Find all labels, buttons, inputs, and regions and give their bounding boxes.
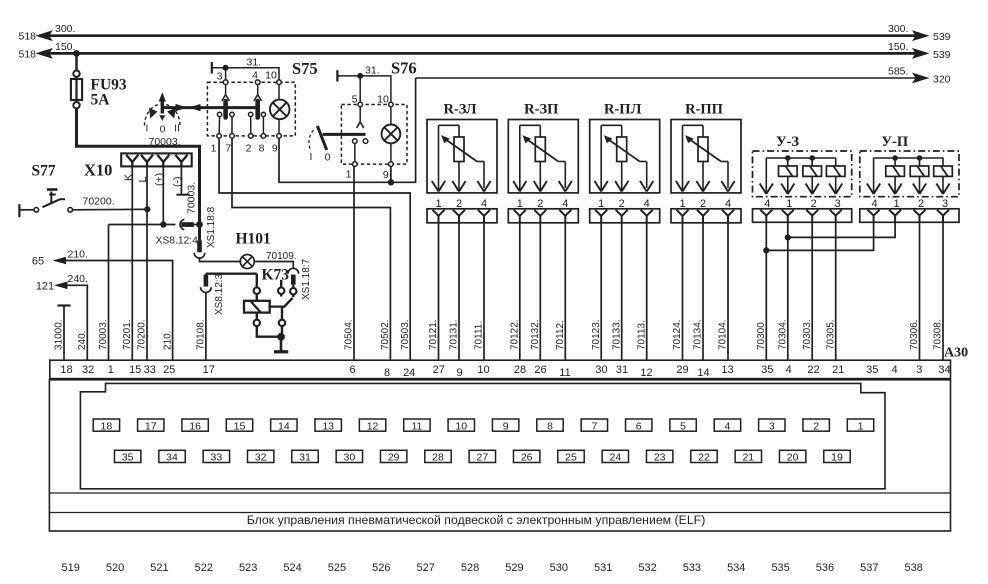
label 31. (S76): [365, 65, 380, 77]
svg-text:70112.: 70112.: [555, 320, 566, 350]
svg-text:518: 518: [19, 31, 37, 43]
label 70200: [83, 195, 115, 207]
svg-text:65: 65: [32, 256, 44, 268]
label У-П: [881, 134, 908, 150]
connector strip (R-ПЛ): [590, 209, 660, 223]
label S76: [391, 59, 417, 78]
svg-text:320: 320: [933, 74, 951, 86]
connector XS8.12:3: [201, 274, 257, 293]
wire 70200 (X10 L to pin 33): [144, 166, 150, 360]
svg-text:20: 20: [787, 452, 799, 464]
label A30: [944, 346, 968, 361]
wire bus 300 (518-539): [35, 30, 929, 41]
svg-text:70121.: 70121.: [428, 319, 439, 350]
svg-text:532: 532: [638, 562, 656, 574]
S75 pins (bottom): [217, 134, 282, 139]
svg-text:529: 529: [505, 562, 523, 574]
S75 contact group 1: [217, 85, 234, 134]
svg-text:3: 3: [916, 364, 922, 376]
wire 70308 (У-П pin3 to pin 34): [933, 222, 944, 360]
svg-text:25: 25: [163, 364, 175, 376]
wire 70303 (У-З pin2 to pin 22): [802, 222, 813, 360]
svg-text:3: 3: [769, 420, 775, 432]
pin labels 4 1 2 3 (У-З): [764, 198, 841, 210]
svg-text:25: 25: [565, 452, 577, 464]
svg-text:21: 21: [832, 364, 844, 376]
svg-text:4: 4: [891, 364, 897, 376]
node 539 (bus 300 right): [888, 23, 951, 43]
svg-text:210.: 210.: [162, 331, 173, 350]
svg-text:31: 31: [299, 452, 311, 464]
svg-text:I: I: [146, 123, 149, 135]
wire 70503 (S75 pin1 to pin 24): [219, 138, 410, 360]
height sensor R-ЗЛ: [427, 120, 497, 193]
label H101: [236, 231, 271, 248]
svg-text:34: 34: [938, 364, 950, 376]
label 70200 (wire): [137, 319, 148, 350]
connector strip (У-П): [860, 209, 959, 223]
wire 70133.: [611, 223, 622, 360]
wire 31 (S76 supply): [337, 70, 391, 104]
pin labels 1 9 (S76 bottom): [346, 169, 389, 181]
node 518 (bus 300 left): [19, 23, 76, 43]
wire 70122.: [510, 223, 521, 360]
svg-text:XS1.18:7: XS1.18:7: [301, 258, 312, 300]
svg-text:30: 30: [595, 364, 607, 376]
svg-text:S76: S76: [391, 59, 417, 78]
label K73: [262, 267, 290, 284]
svg-text:70504.: 70504.: [344, 319, 355, 350]
svg-text:70306.: 70306.: [909, 319, 920, 350]
svg-text:7: 7: [225, 143, 231, 155]
pin labels 1 7 2 8 9 (S75 bottom): [211, 143, 278, 155]
svg-text:70111.: 70111.: [474, 321, 485, 350]
svg-text:30: 30: [344, 452, 356, 464]
svg-text:3: 3: [217, 71, 223, 83]
svg-text:9: 9: [272, 143, 278, 155]
svg-text:12: 12: [640, 367, 652, 379]
svg-text:24: 24: [609, 452, 621, 464]
svg-text:6: 6: [636, 420, 642, 432]
junction S76 pin9: [388, 179, 394, 185]
wire S75 pin9 to bus 585: [279, 78, 416, 182]
svg-text:1: 1: [211, 143, 217, 155]
label R-ПЛ: [604, 102, 642, 118]
label 70504: [344, 319, 355, 350]
wire 70112.: [555, 223, 566, 360]
ELF caption: [247, 513, 706, 527]
svg-text:14: 14: [278, 420, 290, 432]
svg-text:S75: S75: [292, 59, 318, 78]
connector XS1.18:8: [194, 225, 205, 259]
wire S76 pin9 to junction: [390, 166, 392, 182]
svg-text:8: 8: [547, 420, 553, 432]
svg-text:518: 518: [19, 49, 37, 61]
label 121: [36, 273, 88, 293]
svg-text:524: 524: [283, 562, 301, 574]
svg-text:12: 12: [367, 420, 379, 432]
connector XS8.12:4: [180, 219, 194, 229]
switch S76 body: [341, 105, 407, 165]
svg-text:XS8.12:3: XS8.12:3: [214, 273, 225, 315]
svg-text:70113.: 70113.: [636, 320, 647, 350]
svg-text:530: 530: [550, 562, 568, 574]
svg-text:10: 10: [455, 420, 467, 432]
svg-text:210.: 210.: [68, 248, 88, 260]
svg-text:У-П: У-П: [881, 134, 908, 150]
svg-text:70003.: 70003.: [149, 136, 181, 148]
connector strip (R-ЗП): [508, 209, 578, 223]
svg-text:70201.: 70201.: [122, 319, 133, 350]
connector strip (У-З): [753, 209, 852, 223]
wire bus 585 (to 320): [416, 73, 930, 84]
svg-text:16: 16: [189, 420, 201, 432]
svg-text:R-ЗП: R-ЗП: [524, 102, 558, 118]
label 70003 (top): [149, 136, 181, 148]
svg-text:29: 29: [388, 452, 400, 464]
wire 70003 (fuse output, thick): [77, 108, 200, 223]
wire 70504 (S76 pin1 to pin 6): [353, 166, 355, 360]
svg-text:70133.: 70133.: [611, 319, 622, 350]
wire bus 150 (518-539): [35, 48, 929, 59]
wire У-П pin4 join: [766, 222, 873, 250]
wire 70132.: [530, 223, 541, 360]
svg-text:R-ПЛ: R-ПЛ: [604, 102, 642, 118]
wire 70121.: [428, 223, 439, 360]
svg-text:17: 17: [145, 420, 157, 432]
pin labels 4 1 2 3 (У-П): [872, 198, 949, 210]
label R-ЗЛ: [443, 102, 476, 118]
svg-text:0: 0: [160, 124, 166, 136]
svg-text:527: 527: [416, 562, 434, 574]
label R-ПП: [685, 102, 723, 118]
ELF control unit outer box: [49, 380, 950, 531]
svg-text:525: 525: [328, 562, 346, 574]
svg-text:70300: 70300: [756, 322, 767, 350]
svg-text:522: 522: [195, 562, 213, 574]
wire 70131.: [449, 223, 460, 360]
svg-text:70305.: 70305.: [825, 319, 836, 350]
wire 70109 (H101 to XS1.18:7): [254, 262, 293, 269]
svg-text:23: 23: [654, 452, 666, 464]
svg-text:150.: 150.: [55, 41, 75, 53]
svg-text:10: 10: [265, 70, 277, 82]
switch S75 body: [207, 82, 295, 136]
S76 toggle contact: [309, 107, 368, 162]
svg-text:9: 9: [383, 169, 389, 181]
svg-text:32: 32: [82, 364, 94, 376]
label 70108: [196, 319, 207, 350]
ground (K73): [274, 350, 288, 353]
lamp H101: [240, 255, 254, 269]
label У-З: [776, 134, 799, 150]
svg-text:70304.: 70304.: [778, 319, 789, 350]
svg-text:240.: 240.: [68, 273, 88, 285]
lamp (S76): [382, 107, 401, 162]
svg-text:9: 9: [503, 420, 509, 432]
label 70503: [400, 319, 411, 350]
svg-text:539: 539: [933, 49, 951, 61]
svg-text:538: 538: [905, 562, 923, 574]
wire 240 to terminal 121: [54, 282, 88, 361]
svg-text:1: 1: [858, 420, 864, 432]
svg-text:35: 35: [866, 364, 878, 376]
label 70003 (vertical, near XS1.18:8): [186, 182, 198, 214]
label XS8.12:4: [156, 236, 199, 247]
svg-text:15: 15: [234, 420, 246, 432]
svg-text:31: 31: [616, 364, 628, 376]
wire (+) to XS8.12:4 to 70003: [109, 224, 200, 226]
svg-text:2: 2: [813, 420, 819, 432]
connector A30 strip: [50, 360, 951, 378]
svg-text:70132.: 70132.: [530, 319, 541, 350]
svg-text:II: II: [174, 123, 180, 135]
svg-text:585.: 585.: [888, 66, 908, 78]
switch S77: [19, 190, 147, 218]
label XS8.12:3: [214, 273, 225, 315]
svg-text:150.: 150.: [888, 41, 908, 53]
svg-text:31.: 31.: [365, 65, 380, 77]
label X10: [84, 161, 112, 180]
svg-text:70502.: 70502.: [380, 319, 391, 350]
connector strip (R-ПП): [671, 209, 741, 223]
svg-text:533: 533: [683, 562, 701, 574]
wire 70123.: [591, 223, 602, 360]
svg-text:5: 5: [680, 420, 686, 432]
svg-text:28: 28: [514, 364, 526, 376]
svg-text:A30: A30: [944, 346, 968, 361]
svg-text:520: 520: [106, 562, 124, 574]
svg-text:70124.: 70124.: [672, 319, 683, 350]
svg-text:1: 1: [108, 364, 114, 376]
label 70109: [266, 251, 297, 262]
svg-text:528: 528: [461, 562, 479, 574]
svg-text:70122.: 70122.: [510, 319, 521, 350]
solenoid block У-З: [753, 151, 852, 197]
wire 70300 (У-З pin4 to pin 35): [756, 222, 769, 360]
wire 70201 (X10 K to pin 15): [131, 166, 133, 360]
svg-text:5A: 5A: [91, 92, 111, 109]
ELF terminals 35..19: [115, 450, 851, 463]
svg-text:R-ПП: R-ПП: [685, 102, 723, 118]
svg-text:31.: 31.: [247, 57, 262, 69]
svg-text:18: 18: [60, 364, 72, 376]
svg-text:240.: 240.: [77, 331, 88, 350]
svg-text:4: 4: [725, 420, 731, 432]
svg-text:26: 26: [534, 364, 546, 376]
svg-text:534: 534: [727, 562, 745, 574]
height sensor R-ПЛ: [590, 120, 660, 193]
svg-text:14: 14: [697, 367, 709, 379]
svg-text:27: 27: [433, 364, 445, 376]
svg-text:519: 519: [62, 562, 80, 574]
svg-text:70131.: 70131.: [449, 319, 460, 350]
svg-text:70308.: 70308.: [933, 319, 944, 350]
pin labels 3 4 10 (S75 top): [217, 70, 277, 83]
svg-text:300.: 300.: [888, 23, 908, 35]
svg-text:18: 18: [101, 420, 113, 432]
svg-text:11: 11: [559, 367, 570, 379]
node 539 (bus 150 right): [888, 41, 951, 61]
rotary switch arc: [145, 104, 181, 126]
ELF terminals 18..1: [93, 419, 874, 432]
svg-text:5: 5: [352, 94, 358, 106]
S75 contact group 2: [249, 85, 266, 134]
svg-text:9: 9: [456, 367, 462, 379]
svg-text:521: 521: [150, 562, 168, 574]
wire 70305 (У-З pin3 to pin 21): [825, 222, 836, 360]
ELF inner box: [80, 383, 885, 488]
svg-text:6: 6: [350, 364, 356, 376]
svg-text:S77: S77: [32, 163, 56, 180]
svg-text:526: 526: [372, 562, 390, 574]
svg-text:523: 523: [239, 562, 257, 574]
svg-text:27: 27: [476, 452, 488, 464]
lamp (S75): [270, 85, 290, 134]
label 70502: [380, 319, 391, 350]
svg-text:8: 8: [384, 367, 390, 379]
node 320 (bus 585 right): [888, 66, 951, 86]
svg-text:537: 537: [860, 562, 878, 574]
bottom terminal numbers 519-538: [62, 562, 923, 574]
svg-text:70200.: 70200.: [137, 319, 148, 350]
svg-text:121: 121: [36, 281, 54, 293]
svg-text:15: 15: [129, 364, 141, 376]
svg-text:2: 2: [246, 143, 252, 155]
svg-text:70109.: 70109.: [266, 251, 297, 262]
fuse FU93 5A: [71, 53, 127, 108]
junction on bus 150: [73, 50, 80, 57]
svg-text:22: 22: [698, 452, 710, 464]
svg-text:32: 32: [255, 452, 267, 464]
svg-text:7: 7: [591, 420, 597, 432]
svg-text:70123.: 70123.: [591, 319, 602, 350]
wire 31 (S75 supply): [212, 62, 279, 82]
svg-text:33: 33: [211, 452, 223, 464]
svg-text:1: 1: [346, 169, 352, 181]
svg-text:K73: K73: [262, 267, 290, 284]
svg-text:300.: 300.: [55, 23, 75, 35]
wire 70113.: [636, 223, 647, 360]
pin labels K L (+) (-): [123, 173, 184, 187]
svg-text:11: 11: [411, 420, 422, 432]
X10 (-) stub: [176, 166, 189, 194]
svg-text:H101: H101: [236, 231, 271, 248]
pin labels 1 2 4 (R-ПЛ): [598, 198, 650, 210]
wire XS1.18:8 to H101: [200, 258, 241, 261]
svg-text:34: 34: [166, 452, 178, 464]
labels I 0 (S76): [310, 151, 331, 164]
svg-text:XS8.12:4: XS8.12:4: [156, 236, 199, 247]
svg-text:4: 4: [786, 364, 792, 376]
label 31. (S75): [247, 57, 262, 69]
S75 pins (top): [223, 80, 281, 85]
svg-text:У-З: У-З: [776, 134, 799, 150]
svg-text:26: 26: [521, 452, 533, 464]
svg-text:X10: X10: [84, 161, 112, 180]
svg-text:13: 13: [721, 364, 733, 376]
svg-text:I: I: [310, 151, 313, 163]
svg-text:28: 28: [432, 452, 444, 464]
svg-text:Блок управления пневматической: Блок управления пневматической подвеской…: [247, 513, 706, 527]
label 65: [32, 248, 88, 267]
svg-text:70003.: 70003.: [98, 319, 109, 350]
connector X10: [121, 153, 192, 166]
label R-ЗП: [524, 102, 558, 118]
connector XS1.18:7: [288, 268, 299, 288]
svg-text:R-ЗЛ: R-ЗЛ: [443, 102, 476, 118]
pin labels 5 10 (S76 top): [352, 94, 389, 106]
wire 70304 (У-З pin1 to pin 4): [778, 222, 791, 360]
relay K73 coil and contacts: [244, 274, 296, 351]
pin labels 1 2 4 (R-ЗП): [517, 198, 569, 210]
actuator bar to S75: [164, 104, 260, 111]
A30 pin numbers: [60, 364, 950, 379]
pin labels 1 2 4 (R-ЗЛ): [435, 198, 487, 210]
solenoid block У-П: [860, 151, 959, 197]
label XS1.18:7: [301, 258, 312, 300]
height sensor R-ПП: [671, 120, 741, 193]
label XS1.18:8: [206, 206, 217, 248]
node 518 (bus 150 left): [19, 41, 76, 61]
svg-text:31000.: 31000.: [54, 319, 65, 350]
junction XS1.18:8 top: [196, 221, 203, 228]
svg-text:0: 0: [325, 152, 331, 164]
wire X10 (+) branch: [160, 166, 166, 227]
svg-text:10: 10: [477, 364, 489, 376]
svg-text:21: 21: [742, 452, 754, 464]
pin labels 1 2 4 (R-ПП): [679, 198, 731, 210]
svg-text:10: 10: [377, 94, 389, 106]
svg-text:33: 33: [144, 364, 156, 376]
wire У-П pin1 join: [788, 222, 895, 237]
S76 pins: [353, 102, 394, 166]
svg-text:8: 8: [259, 143, 265, 155]
wire 70104.: [718, 223, 729, 360]
label 70003 (wire to pin 1): [98, 319, 109, 350]
connector strip (R-ЗЛ): [427, 209, 497, 223]
wire 31000 (pin 18 stub): [54, 306, 71, 361]
svg-text:35: 35: [761, 364, 773, 376]
svg-text:70108.: 70108.: [196, 319, 207, 350]
svg-text:70303.: 70303.: [802, 319, 813, 350]
label S75: [292, 59, 318, 78]
svg-text:70003.: 70003.: [186, 182, 198, 214]
svg-text:70134.: 70134.: [693, 319, 704, 350]
wire 70134.: [693, 223, 704, 360]
svg-text:70503.: 70503.: [400, 319, 411, 350]
wire 70124.: [672, 223, 683, 360]
label 70201: [122, 319, 133, 350]
svg-text:22: 22: [807, 364, 819, 376]
svg-text:29: 29: [676, 364, 688, 376]
svg-text:531: 531: [594, 562, 612, 574]
svg-text:536: 536: [816, 562, 834, 574]
wire 70003 down to pin 1: [108, 225, 110, 361]
svg-text:19: 19: [831, 452, 843, 464]
wire 70111.: [474, 223, 485, 360]
height sensor R-ЗП: [508, 120, 578, 193]
labels I 0 II: [146, 123, 180, 136]
label S77: [32, 163, 56, 180]
rotary switch lever (I-0-II): [159, 92, 166, 121]
wire 70108 down to pin 17: [205, 293, 207, 361]
svg-text:70104.: 70104.: [718, 319, 729, 350]
wire 70502 (S75 pin7 to pin 8): [232, 138, 390, 360]
svg-text:70200.: 70200.: [83, 195, 115, 207]
svg-text:35: 35: [122, 452, 134, 464]
wire 210 to terminal 65: [53, 257, 174, 361]
